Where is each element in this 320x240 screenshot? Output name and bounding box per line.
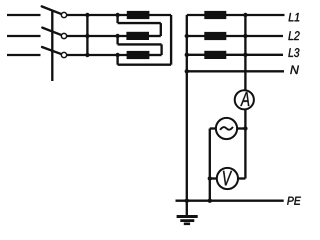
node dot bus line1: [85, 13, 89, 17]
node dot bus L3: [185, 53, 189, 57]
wire sine source right: [237, 127, 246, 129]
wire voltmeter right: [238, 177, 246, 179]
wire inner vertical a: [160, 23, 162, 36]
switch contact circle pole 1: [61, 12, 66, 17]
switch Q1 blade pole 2: [42, 28, 62, 36]
wire input line 3: [7, 54, 41, 56]
switch Q1 blade pole 3: [42, 47, 62, 54]
wire voltmeter left: [210, 177, 217, 179]
wire sine source left: [210, 127, 217, 129]
node dot sine junction: [243, 126, 247, 130]
wire input line 2: [7, 35, 41, 37]
fuse F4 right L1: [204, 11, 226, 19]
label L2: [288, 31, 299, 40]
wire loop left vertical: [209, 129, 211, 201]
wire drop from node 2: [116, 36, 118, 44]
node dot loop1: [115, 13, 119, 17]
switch contact circle pole 2: [61, 33, 66, 38]
wire L3 line: [187, 54, 283, 56]
wire loop 3 horizontal: [118, 64, 172, 66]
node dot bus N: [185, 69, 189, 73]
switch Q1 linkage bar: [51, 10, 53, 81]
switch Q1 blade pole 1: [42, 6, 62, 14]
fuse F6 right L3: [204, 51, 226, 59]
label PE: [287, 197, 301, 205]
fuse F1 left: [127, 11, 150, 19]
wire line 3 switch to fuse F3: [67, 54, 127, 56]
wire PE line: [176, 200, 284, 202]
label L1: [289, 13, 300, 21]
wire drop from node 3: [116, 55, 118, 65]
fuse F2 left: [126, 32, 149, 40]
generator G1 sine source: [216, 118, 237, 139]
wire fuse F1 output: [149, 14, 171, 16]
ground bar 1: [177, 215, 198, 218]
switch contact circle pole 3: [61, 52, 66, 57]
wire loop 2 horizontal: [118, 43, 162, 45]
wire inner vertical b: [160, 44, 162, 55]
node dot loop2: [115, 34, 119, 38]
wire N line: [187, 70, 284, 72]
ground stub: [186, 201, 188, 217]
ammeter P1: [235, 90, 254, 109]
label L3: [288, 48, 299, 57]
node dot loop3: [115, 53, 119, 57]
node dot bus line2: [85, 34, 89, 38]
node dot tap L3: [243, 53, 247, 57]
node dot tap L2: [243, 34, 247, 38]
wire outer vertical: [170, 15, 172, 65]
wire tie bus vertical: [86, 15, 88, 55]
node dot tap L1: [243, 13, 247, 17]
wire meter tap vertical: [244, 15, 246, 91]
ground bar 3: [184, 223, 190, 226]
wire line 1 switch to fuse F1: [67, 14, 127, 16]
ground bar 2: [180, 219, 194, 222]
fuse F3 left: [127, 51, 150, 59]
node dot PE loop: [208, 199, 212, 203]
node dot bus PE: [185, 199, 189, 203]
wire fuse F2 output: [149, 35, 161, 37]
wire fuse F3 output: [149, 54, 162, 56]
fuse F5 right L2: [204, 32, 226, 40]
voltmeter P2: [217, 168, 238, 189]
wire drop from node 1: [116, 15, 118, 23]
wire input line 1: [7, 14, 41, 16]
node dot voltmeter branch: [208, 176, 212, 180]
main bus vertical: [186, 15, 188, 201]
label N: [290, 66, 299, 75]
wire loop 1 horizontal: [118, 22, 161, 24]
node dot bus L2: [185, 34, 189, 38]
node dot bus line3: [85, 53, 89, 57]
wire ammeter to voltmeter vertical: [244, 109, 246, 178]
wire L1 line: [187, 14, 285, 16]
wire line 2 switch to fuse F2: [67, 35, 127, 37]
wire L2 line: [187, 35, 283, 37]
